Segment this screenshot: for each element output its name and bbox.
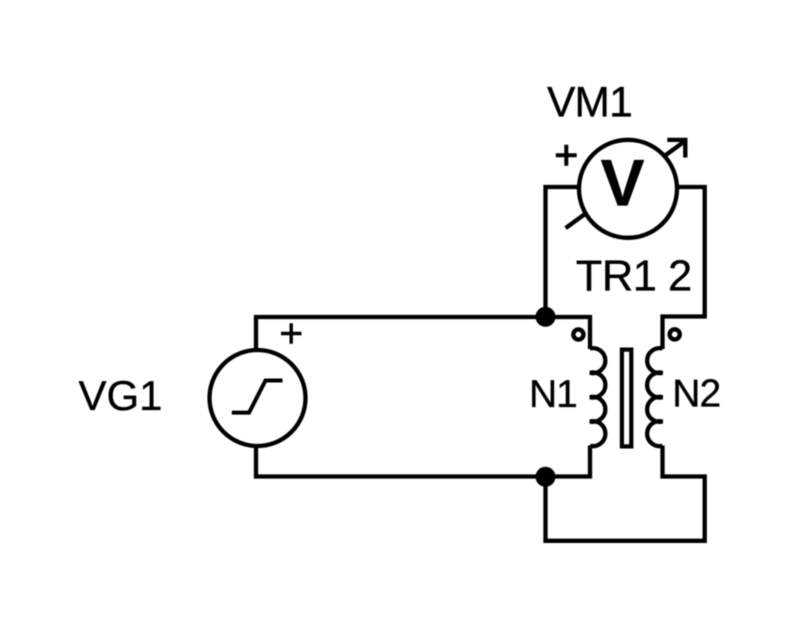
label N1 (529, 373, 577, 416)
VG1 ramp waveform symbol (232, 381, 283, 413)
transformer TR1 winding N2 (647, 348, 662, 446)
node B junction dot (536, 467, 556, 487)
voltmeter V letter (600, 145, 644, 219)
wire: VG1 top to node A (256, 317, 546, 349)
svg-text:V: V (600, 145, 644, 219)
transformer phase dot primary (573, 329, 583, 339)
label VG1 (79, 372, 163, 419)
label TR1 2 (576, 253, 692, 301)
transformer phase dot secondary (670, 329, 680, 339)
svg-text:VG1: VG1 (79, 372, 163, 419)
VG1 plus polarity sign (281, 323, 302, 344)
svg-text:N2: N2 (672, 373, 720, 416)
wire: N1 bottom lead to node B to VG1 bottom (256, 446, 590, 477)
svg-text:N1: N1 (529, 373, 577, 416)
voltage generator VG1 circle (210, 350, 306, 446)
svg-text:VM1: VM1 (547, 79, 632, 126)
voltmeter VM1 circle (579, 140, 677, 238)
voltmeter arrow shaft (566, 141, 685, 228)
wire: node B bottom loop to N2 bottom lead (546, 446, 705, 541)
transformer TR1 winding N1 (590, 348, 605, 446)
svg-text:TR1 2: TR1 2 (576, 253, 692, 301)
node A junction dot (536, 307, 556, 327)
label VM1 (547, 79, 632, 126)
VM1 plus polarity sign (556, 145, 577, 166)
transformer TR1 core (622, 350, 631, 447)
wire: node A up to voltmeter left terminal (546, 187, 578, 317)
wire: node A to N1 top lead (546, 317, 591, 349)
label N2 (672, 373, 720, 416)
wire: voltmeter right terminal down to N2 top lead (663, 187, 705, 349)
voltmeter arrow head (667, 140, 685, 158)
